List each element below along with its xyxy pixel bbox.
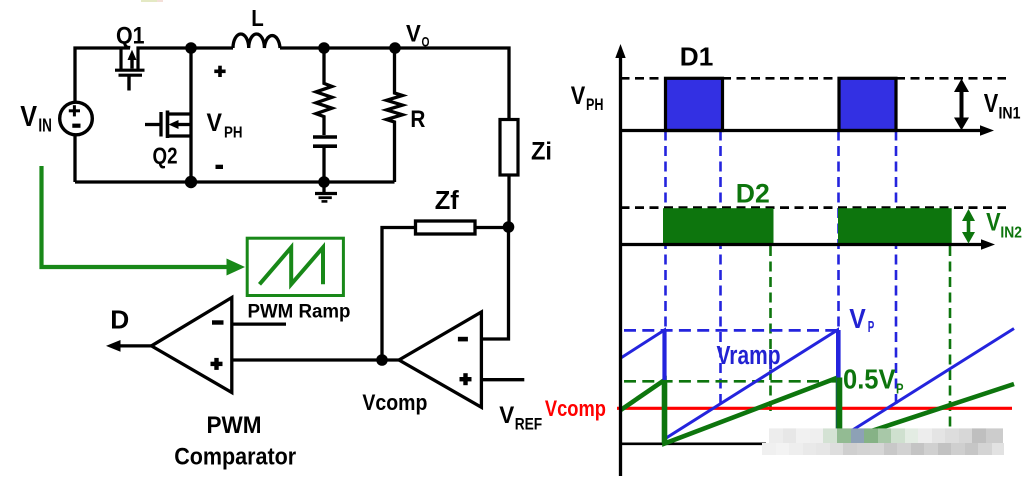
label VPH <box>207 109 243 142</box>
pulse D1 first <box>666 78 723 130</box>
load resistor R <box>387 48 403 182</box>
label VIN <box>20 101 52 136</box>
svg-text:Zf: Zf <box>435 187 459 215</box>
svg-text:PWM Ramp: PWM Ramp <box>248 301 351 323</box>
ramp baseline <box>621 442 767 445</box>
svg-text:IN: IN <box>38 116 52 136</box>
svg-text:V: V <box>20 101 37 133</box>
svg-text:Comparator: Comparator <box>174 444 296 471</box>
svg-text:V: V <box>984 90 999 118</box>
arrow VIN1 <box>954 79 969 131</box>
label VREF <box>499 402 542 433</box>
wire Q1 to phase node <box>137 46 192 49</box>
inductor L <box>233 34 280 48</box>
pulse D2 second <box>838 208 952 244</box>
svg-text:IN2: IN2 <box>1000 224 1022 241</box>
node phase bottom <box>185 176 197 188</box>
PWM ramp block <box>247 238 343 295</box>
svg-text:Zi: Zi <box>531 138 552 166</box>
svg-text:PWM: PWM <box>207 412 262 439</box>
wire VIN bottom <box>73 134 76 182</box>
VP level dashed blue <box>624 329 840 332</box>
time axis 1 <box>621 125 995 135</box>
label minus VPH <box>216 165 224 169</box>
wire error amp plus input VREF <box>481 378 524 381</box>
green ramp drop 2 <box>837 378 843 443</box>
svg-text:V: V <box>207 109 223 137</box>
arrow VIN2 <box>962 209 975 244</box>
blue dashed vertical D1 rise 2 <box>837 131 840 332</box>
label VIN2 <box>986 209 1022 242</box>
wire phase to inductor <box>191 46 233 49</box>
VPH level dashed line <box>621 77 1007 80</box>
wire VIN top to Q1 <box>75 48 130 103</box>
svg-text:P: P <box>868 319 875 336</box>
impedance Zi <box>500 120 518 228</box>
svg-text:REF: REF <box>515 415 543 433</box>
pulse D1 second <box>839 78 896 130</box>
blue ramp Vramp <box>620 329 1014 440</box>
op-amp PWM comparator U2 <box>151 298 231 393</box>
label VIN1 <box>984 90 1021 122</box>
wire inductor to filter node <box>280 46 324 49</box>
svg-text:PH: PH <box>586 95 604 114</box>
green feed wire VIN to ramp <box>42 166 246 276</box>
node filter top <box>318 42 330 54</box>
node phase top <box>185 42 197 54</box>
label PWM Comparator <box>174 412 296 471</box>
wire Zf to Vcomp node <box>382 228 416 361</box>
svg-text:L: L <box>251 5 263 31</box>
output capacitor <box>313 137 337 182</box>
svg-text:V: V <box>986 209 1001 237</box>
svg-text:Q1: Q1 <box>116 23 145 50</box>
label VP <box>849 303 874 336</box>
label Vo <box>406 21 430 50</box>
label VPH axis <box>571 82 604 114</box>
blue dashed vertical D1 rise 1 <box>664 131 667 332</box>
svg-text:V: V <box>499 402 514 429</box>
transistor Q2 <box>145 111 191 139</box>
blue ramp drop 2 <box>836 330 840 440</box>
wire comparator output D <box>106 340 151 352</box>
green dashed vertical D2 fall 1 <box>769 246 772 411</box>
blue dashed vertical D1 fall 1 <box>719 131 722 408</box>
VPH2 level dashed line <box>621 206 1007 209</box>
svg-text:Vcomp: Vcomp <box>545 396 606 421</box>
label half VP <box>843 364 904 398</box>
voltage source VIN <box>60 102 93 135</box>
watermark mosaic <box>762 428 1004 455</box>
wire junction to error amp minus input <box>481 227 508 339</box>
wire Vo to Zi <box>395 48 509 120</box>
wire PWM ramp to comparator minus input <box>232 322 286 325</box>
svg-text:P: P <box>896 381 904 398</box>
blue dashed vertical D1 fall 2 <box>895 131 898 407</box>
op-amp error amplifier U1 <box>399 312 481 407</box>
svg-text:D1: D1 <box>680 42 714 72</box>
wire error amp output to comparator plus input <box>232 358 399 361</box>
half VP level dashed green <box>624 380 841 383</box>
svg-text:IN1: IN1 <box>999 104 1021 122</box>
svg-text:Vramp: Vramp <box>717 342 781 370</box>
node filter bottom <box>318 176 330 188</box>
wire filter node to Vo <box>324 46 395 49</box>
waveform vertical axis <box>615 44 625 476</box>
svg-text:D: D <box>110 306 129 334</box>
svg-text:V: V <box>571 82 586 110</box>
label plus VPH <box>214 66 225 77</box>
time axis 2 <box>621 239 996 249</box>
node Vcomp <box>376 354 388 366</box>
output cap ESR resistor <box>316 48 332 135</box>
green ramp drop 1 <box>662 380 668 444</box>
svg-text:0.5V: 0.5V <box>843 364 896 395</box>
svg-text:D2: D2 <box>736 179 770 209</box>
blue ramp drop 1 <box>662 330 666 439</box>
wire ground rail <box>75 180 395 183</box>
node Vo <box>389 42 401 54</box>
svg-text:V: V <box>849 303 866 334</box>
node Zf Zi junction <box>503 221 515 233</box>
edge artifact top-left <box>141 0 163 2</box>
svg-text:PH: PH <box>224 125 243 142</box>
impedance Zf <box>416 221 509 234</box>
transistor Q1 <box>115 47 145 91</box>
Vcomp red level line <box>617 407 1012 410</box>
wire phase node vertical <box>189 48 192 182</box>
green ramp <box>620 378 1014 444</box>
pulse D2 first <box>663 208 774 244</box>
svg-text:V: V <box>406 21 421 48</box>
svg-text:Q2: Q2 <box>153 143 178 169</box>
ground symbol <box>315 182 337 201</box>
svg-text:Vcomp: Vcomp <box>362 390 427 415</box>
green dashed vertical D2 fall 2 <box>949 246 952 428</box>
svg-text:R: R <box>410 106 425 133</box>
